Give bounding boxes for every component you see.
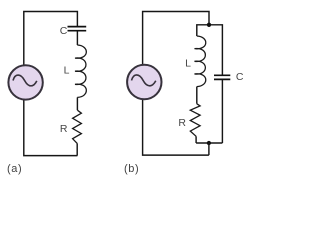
AC source sine symbol (circuit b) bbox=[132, 75, 156, 86]
wire: circuit (b) left+top rail, source top to top junction bbox=[143, 12, 209, 65]
AC source circle (circuit a) bbox=[8, 65, 42, 99]
inductor L (circuit b) bbox=[195, 36, 206, 87]
junction dot bottom (circuit b) bbox=[207, 141, 211, 145]
wire: resistor to bottom rail (circuit a) bbox=[76, 143, 78, 155]
svg-text:(a): (a) bbox=[7, 163, 22, 175]
wire: inductor to resistor (circuit a) bbox=[76, 97, 78, 110]
wire: circuit (b) bottom rail and left wire up to source bottom bbox=[143, 100, 209, 156]
AC source circle (circuit b) bbox=[127, 65, 161, 99]
junction dot top (circuit b) bbox=[207, 23, 211, 27]
AC source sine symbol (circuit a) bbox=[13, 75, 37, 86]
svg-text:L: L bbox=[185, 58, 191, 70]
svg-text:L: L bbox=[64, 65, 70, 77]
capacitor C (circuit b) bbox=[214, 75, 230, 79]
wire: bottom junction to bottom rail (circuit b) bbox=[208, 143, 210, 155]
inductor L (circuit a) bbox=[75, 45, 86, 97]
wire: capacitor to bottom bar (circuit b) bbox=[221, 80, 223, 143]
svg-text:C: C bbox=[236, 71, 244, 83]
resistor R (circuit a) bbox=[73, 110, 82, 143]
svg-text:(b): (b) bbox=[124, 163, 139, 175]
svg-text:R: R bbox=[178, 117, 186, 129]
svg-text:R: R bbox=[60, 123, 68, 135]
wire: capacitor to inductor (circuit a) bbox=[76, 32, 78, 46]
wire: circuit (b) bottom bar of parallel branches bbox=[196, 142, 222, 144]
wire: circuit (a) left+top rail, source top to capacitor bbox=[24, 12, 78, 65]
wire: circuit (a) bottom rail and left wire up to source bottom bbox=[24, 100, 78, 156]
wire: circuit (b) top bar of parallel branches bbox=[197, 25, 223, 76]
wire: resistor to bottom bar (circuit b) bbox=[195, 136, 197, 143]
svg-text:C: C bbox=[60, 25, 68, 37]
resistor R (circuit b) bbox=[190, 104, 200, 137]
capacitor C (circuit a) bbox=[68, 27, 87, 31]
wire: inductor to resistor (circuit b) bbox=[196, 87, 198, 104]
